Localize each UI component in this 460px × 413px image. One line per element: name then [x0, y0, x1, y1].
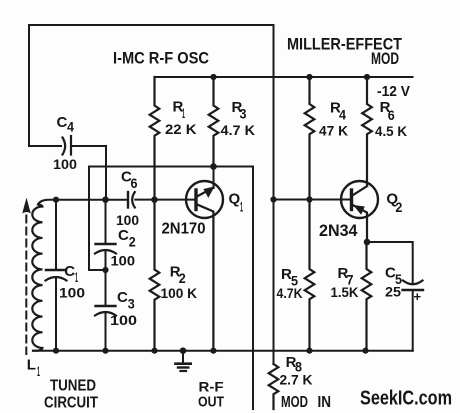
capacitor C2 lead bottom [105, 252, 107, 270]
wire C5 bottom lead [412, 290, 414, 351]
capacitor C3 straight plate [96, 305, 116, 307]
wire R-F OUT line [252, 167, 254, 410]
svg-text:Q: Q [229, 191, 241, 208]
wire left drop from feedback line to C2/C3 node [89, 167, 106, 271]
svg-text:2: 2 [395, 199, 402, 215]
svg-text:100: 100 [111, 253, 136, 269]
svg-text:2.7 K: 2.7 K [280, 372, 313, 388]
svg-text:6: 6 [131, 175, 138, 191]
wire Q1 emitter lead to feedback node [213, 167, 215, 189]
svg-text:OUT: OUT [198, 395, 224, 411]
svg-text:3: 3 [128, 296, 135, 312]
transistor Q1 circle [186, 181, 223, 218]
svg-text:6: 6 [388, 107, 395, 123]
svg-text:MOD: MOD [371, 50, 399, 68]
svg-text:CIRCUIT: CIRCUIT [44, 395, 98, 412]
capacitor C5 curved plate [403, 281, 423, 285]
svg-text:2: 2 [129, 234, 136, 250]
capacitor C2 lead top [105, 200, 107, 244]
wire C4 left lead [29, 145, 61, 147]
transistor Q1 emitter diagonal [196, 188, 214, 198]
svg-text:4.5 K: 4.5 K [375, 123, 407, 139]
wire C4 right lead down to base node [72, 146, 107, 200]
svg-text:25: 25 [385, 284, 401, 300]
wire feedback line y=166 [89, 166, 253, 168]
svg-text:3: 3 [240, 106, 247, 122]
capacitor C2 curved plate [95, 250, 116, 254]
wire top loop from C4 branch to MOD IN line [29, 25, 274, 146]
svg-text:22 K: 22 K [165, 121, 197, 137]
svg-text:SeekIC.com: SeekIC.com [360, 388, 452, 410]
svg-text:4: 4 [339, 107, 346, 123]
capacitor C1 curved plate [46, 277, 67, 281]
capacitor C3 lead top [105, 270, 107, 306]
resistor R7 1.5K [362, 242, 372, 351]
resistor R3 4.7K [209, 77, 219, 167]
capacitor C1 lead bottom [55, 279, 57, 351]
svg-text:100: 100 [116, 212, 139, 228]
svg-text:+: + [414, 289, 422, 304]
wire bottom ground bus [33, 350, 413, 352]
svg-text:IN: IN [318, 394, 332, 411]
svg-text:1: 1 [75, 269, 78, 285]
resistor R2 100K [150, 200, 160, 351]
svg-text:47 K: 47 K [319, 123, 348, 139]
svg-text:100: 100 [53, 156, 77, 172]
transistor Q1 base bar [194, 190, 197, 210]
resistor R4 47K [305, 77, 315, 200]
svg-text:R-F: R-F [199, 379, 224, 395]
svg-text:C: C [64, 263, 75, 280]
svg-text:TUNED: TUNED [50, 378, 96, 395]
svg-text:-12 V: -12 V [377, 83, 410, 100]
transistor Q2 circle [341, 181, 378, 218]
resistor R6 4.5K [362, 77, 372, 184]
svg-text:L: L [27, 357, 36, 374]
resistor R8 2.7K [269, 364, 279, 409]
capacitor C3 curved plate [95, 312, 116, 316]
capacitor C5 straight plate [403, 289, 424, 291]
svg-text:1.5K: 1.5K [331, 284, 359, 300]
capacitor C6 curved plate [132, 192, 135, 208]
transistor Q2 base bar [350, 190, 353, 210]
wire MOD IN line upper [273, 25, 275, 364]
svg-text:I-MC R-F OSC: I-MC R-F OSC [113, 50, 209, 68]
L1 dashed core line [25, 216, 27, 355]
capacitor C4 [63, 138, 66, 155]
junction dots [210, 74, 216, 80]
resistor R1 22K [150, 77, 160, 200]
capacitor C2 straight plate [96, 243, 116, 245]
svg-text:4: 4 [67, 119, 74, 135]
transistor Q2 emitter diagonal and lead down [352, 204, 368, 242]
svg-text:1: 1 [37, 363, 40, 379]
capacitor C1 straight plate [46, 269, 66, 271]
svg-text:C: C [57, 114, 68, 131]
ground symbol [182, 351, 184, 364]
capacitor C3 lead bottom [105, 314, 107, 351]
transistor Q2 collector diagonal [352, 186, 368, 196]
svg-text:2N34: 2N34 [319, 222, 358, 240]
L1 arrow up [23, 200, 30, 213]
svg-text:4.7K: 4.7K [277, 285, 303, 301]
resistor R5 4.7K [305, 200, 315, 351]
wire Q2 emitter node to C5 [367, 242, 413, 283]
svg-text:4.7 K: 4.7 K [221, 122, 256, 138]
wire supply bus -12V y=77 [155, 76, 413, 78]
wire base bus right of C6 [135, 199, 196, 201]
inductor L1 coil [32, 205, 42, 351]
wire main base bus y=199.5 [38, 200, 127, 205]
svg-text:1: 1 [182, 105, 185, 121]
wire Q2 base bus [274, 199, 352, 201]
svg-text:2N170: 2N170 [162, 221, 206, 238]
transistor Q1 collector diagonal and lead down [196, 204, 213, 351]
svg-text:100 K: 100 K [161, 285, 198, 301]
svg-text:2: 2 [179, 270, 186, 286]
svg-text:C: C [118, 227, 129, 244]
transistor Q2 emitter arrowhead (PNP, points to base) [355, 206, 364, 213]
svg-text:100: 100 [59, 285, 85, 301]
svg-text:100: 100 [110, 312, 137, 328]
svg-text:MOD: MOD [281, 394, 308, 411]
svg-text:1: 1 [240, 199, 243, 215]
transistor Q1 emitter arrowhead [205, 188, 213, 197]
capacitor C6 straight plate [127, 192, 129, 208]
svg-text:C: C [117, 289, 128, 306]
capacitor C1 lead top [55, 200, 57, 270]
